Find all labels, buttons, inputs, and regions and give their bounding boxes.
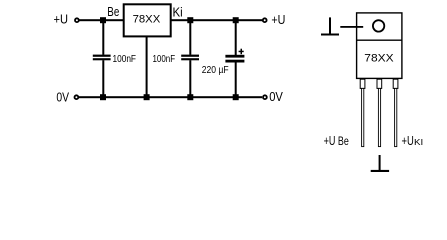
svg-text:0V: 0V	[269, 89, 283, 104]
svg-text:+U: +U	[402, 133, 414, 148]
svg-text:+U: +U	[324, 133, 336, 148]
svg-text:Be: Be	[107, 4, 119, 19]
svg-text:Be: Be	[338, 134, 349, 148]
svg-text:220 µF: 220 µF	[202, 64, 229, 76]
svg-text:100nF: 100nF	[113, 54, 137, 65]
svg-text:78XX: 78XX	[133, 14, 161, 26]
svg-text:KI: KI	[414, 138, 423, 147]
svg-text:0V: 0V	[56, 89, 69, 104]
svg-text:Ki: Ki	[173, 5, 183, 20]
svg-text:+U: +U	[54, 11, 69, 26]
svg-text:100nF: 100nF	[153, 54, 176, 65]
svg-text:+U: +U	[271, 12, 285, 27]
svg-text:78XX: 78XX	[364, 52, 394, 64]
